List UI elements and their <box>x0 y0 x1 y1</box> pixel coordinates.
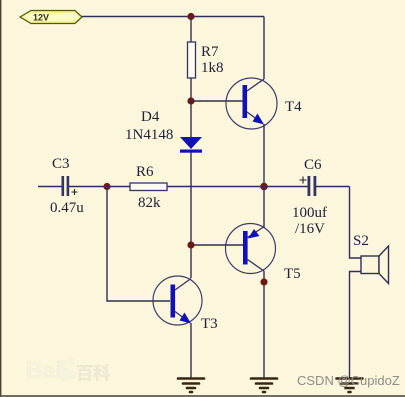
node T5 base / T3 collector <box>187 241 194 248</box>
wire T5 base <box>191 244 243 246</box>
left edge artifact <box>0 0 1 397</box>
resistor R6 <box>107 183 264 191</box>
svg-text:S2: S2 <box>353 233 369 249</box>
wire D4 anode <box>190 101 192 138</box>
transistor T5 <box>226 224 276 274</box>
svg-text:R6: R6 <box>136 164 154 180</box>
svg-text:0.47u: 0.47u <box>50 200 84 216</box>
wire top rail <box>82 16 264 18</box>
node below T5 <box>260 278 267 285</box>
baidu watermark <box>26 357 110 383</box>
power port 12V banner <box>20 11 82 24</box>
svg-text:12V: 12V <box>33 13 49 23</box>
svg-text:T5: T5 <box>284 266 301 282</box>
transistor T4 <box>226 78 277 129</box>
wire R7 bottom to node <box>190 78 192 101</box>
svg-text:1k8: 1k8 <box>201 60 224 76</box>
bottom edge artifact <box>0 395 405 397</box>
node output junction (T4e/T5e/R6/C6) <box>260 183 268 191</box>
wire D4 cathode down to T5 base node and T3 collector <box>190 152 192 278</box>
node R7/D4/T4-base junction <box>187 97 194 104</box>
wire T4 base <box>191 100 243 102</box>
wire T4 emitter down to output node <box>263 124 265 187</box>
ground under T3 <box>178 379 204 393</box>
transistor T3 <box>153 276 202 325</box>
svg-text:CSDN @CupidoZ: CSDN @CupidoZ <box>297 373 400 388</box>
wire T3 emitter to ground <box>190 323 192 378</box>
svg-text:D4: D4 <box>141 109 160 125</box>
svg-text:82k: 82k <box>138 195 161 211</box>
wire T5 top to output node <box>263 187 265 228</box>
svg-text:R7: R7 <box>201 44 219 60</box>
node top rail / R7 junction <box>187 13 194 20</box>
svg-text:T3: T3 <box>201 316 218 332</box>
svg-text:100uf: 100uf <box>292 205 327 221</box>
svg-text:百科: 百科 <box>76 363 110 383</box>
wire C3 node down to T3 base <box>107 187 170 302</box>
wire R7 top <box>190 17 192 43</box>
diode D4 <box>180 137 202 153</box>
wire T4 collector to rail <box>263 17 265 80</box>
capacitor C3 <box>38 176 107 196</box>
wire C6 to speaker top lead <box>350 187 362 259</box>
ground under T5 <box>251 379 277 393</box>
ground under speaker <box>337 379 363 393</box>
wire speaker bottom lead to ground <box>350 272 362 379</box>
svg-text:C3: C3 <box>52 156 70 172</box>
resistor R7 <box>188 42 196 78</box>
svg-text:Bai: Bai <box>26 357 62 383</box>
svg-text:/16V: /16V <box>295 221 325 237</box>
svg-text:T4: T4 <box>285 99 302 115</box>
capacitor C6 <box>264 176 350 196</box>
svg-text:1N4148: 1N4148 <box>125 127 173 143</box>
wire T5 bottom to ground <box>263 271 265 378</box>
node C3 / T3 base junction <box>103 183 110 190</box>
svg-text:C6: C6 <box>304 157 322 173</box>
speaker S2 <box>361 246 389 284</box>
